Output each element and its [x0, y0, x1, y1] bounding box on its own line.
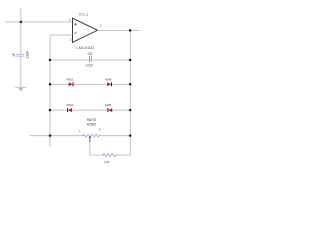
svg-text:4001: 4001	[66, 78, 73, 82]
wire C8 row left	[50, 59, 90, 62]
svg-text:LMC6032: LMC6032	[77, 46, 95, 50]
diode D3 4001	[67, 108, 72, 112]
node C8 left	[49, 59, 52, 62]
svg-text:4148: 4148	[105, 103, 112, 107]
svg-text:1: 1	[78, 129, 80, 133]
svg-text:3: 3	[99, 128, 101, 132]
wire cap to ground	[19, 56, 22, 87]
wire junction to C9 cap	[19, 22, 22, 54]
wire pot row right	[99, 134, 130, 137]
wire diode row 2	[50, 109, 131, 112]
pot wiper arrow	[89, 136, 92, 138]
svg-text:1: 1	[100, 24, 102, 28]
pot pin ends	[83, 135, 84, 136]
wire input horizontal y22	[5, 21, 73, 24]
node row2 left	[49, 109, 52, 112]
wire stub above input junction	[19, 8, 22, 22]
node output	[129, 29, 132, 32]
node C8 right	[129, 59, 132, 62]
svg-text:4001: 4001	[66, 103, 73, 107]
diode D4 4148	[107, 108, 112, 112]
wire left rail	[49, 35, 52, 147]
wire bottom row left	[89, 154, 103, 157]
resistor 1.0K zigzag	[103, 153, 116, 156]
capacitor 2.2uF plates	[12, 53, 24, 57]
node pin ends	[103, 154, 104, 155]
node input junction	[20, 21, 23, 24]
svg-text:1.0K: 1.0K	[104, 160, 111, 164]
wire right rail	[129, 30, 132, 155]
wire C8 row right	[92, 59, 131, 62]
node pot left	[49, 134, 52, 137]
diode D1 4001	[69, 82, 74, 86]
wire diode row 1	[50, 83, 131, 86]
op-amp IC1.1	[73, 18, 98, 42]
node row2 right	[129, 109, 132, 112]
svg-text:C8: C8	[88, 52, 92, 56]
svg-text:3: 3	[69, 18, 71, 22]
svg-text:120pF: 120pF	[85, 63, 93, 67]
wire bottom row right	[116, 154, 131, 157]
node row1 left	[49, 83, 52, 86]
svg-text:RATIO: RATIO	[87, 118, 97, 122]
svg-text:2.2uF: 2.2uF	[26, 51, 30, 58]
wire output y30.4	[98, 29, 140, 32]
capacitor C8 plates	[89, 56, 92, 62]
svg-text:4148: 4148	[105, 78, 112, 82]
node pot right	[129, 134, 132, 137]
wire inverting input y35	[50, 34, 73, 37]
wire pot row left stub	[30, 134, 84, 137]
pot wiper stub	[89, 138, 92, 142]
potentiometer RATIO zigzag	[83, 134, 99, 137]
wire wiper down	[88, 142, 91, 155]
svg-text:IC1.1: IC1.1	[79, 13, 88, 17]
node row1 right	[129, 83, 132, 86]
svg-text:A250K: A250K	[87, 122, 97, 126]
diode D2 4148	[107, 82, 112, 86]
svg-text:2: 2	[70, 38, 72, 42]
ground	[15, 87, 26, 92]
